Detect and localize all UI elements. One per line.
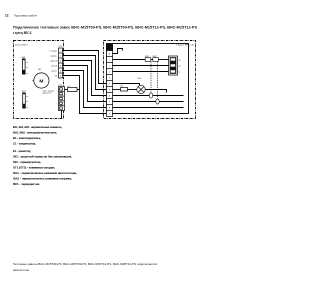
svg-text:Подготовка к работе: Подготовка к работе	[14, 13, 37, 17]
svg-text:ор: ор	[179, 65, 181, 67]
svg-text:SА1 - переключатель режимов ве: SА1 - переключатель режимов вентилятора,	[13, 171, 77, 175]
svg-text:С1 - конденсатор,: С1 - конденсатор,	[13, 141, 36, 145]
svg-text:М: М	[39, 78, 43, 84]
svg-text:аналогично.: аналогично.	[13, 268, 30, 272]
svg-text:к пульту BRC-S.: к пульту BRC-S.	[13, 31, 32, 35]
svg-text:ВК1 - термодатчик.: ВК1 - термодатчик.	[13, 182, 40, 186]
svg-text:ХТ1 (ХТ2) - клеммные колодки,: ХТ1 (ХТ2) - клеммные колодки,	[13, 165, 55, 169]
svg-text:красн.: красн.	[51, 70, 57, 72]
svg-text:М1 - электродвигатель,: М1 - электродвигатель,	[13, 136, 41, 140]
svg-text:SК2 - терморегулятор,: SК2 - терморегулятор,	[13, 160, 41, 164]
svg-text:КМ1, КМ2 - электромагнитные ре: КМ1, КМ2 - электромагнитные реле,	[13, 130, 57, 134]
svg-text:ЕК1, ЕК2, ЕК3 - нагревательные: ЕК1, ЕК2, ЕК3 - нагревательные элементы,	[13, 125, 62, 129]
svg-text:белый: белый	[51, 64, 58, 67]
svg-text:Подключение тепловых завес ВНС: Подключение тепловых завес ВНС-М15Т09-PS…	[13, 26, 197, 30]
svg-text:SА2 - переключатель режимов на: SА2 - переключатель режимов нагрева,	[13, 176, 72, 180]
svg-text:кр: кр	[179, 59, 181, 61]
svg-text:L-голуб.: L-голуб.	[50, 50, 58, 52]
svg-text:SК1 - защитный термостат без с: SК1 - защитный термостат без самовозврат…	[13, 154, 72, 158]
svg-text:Пульт BRC-S: Пульт BRC-S	[177, 45, 195, 47]
svg-text:коричн.: коричн.	[50, 55, 58, 57]
svg-text:черный: черный	[50, 59, 58, 62]
svg-text:Е1 - резистор,: Е1 - резистор,	[13, 149, 31, 153]
svg-text:двигателя: двигателя	[43, 93, 52, 95]
svg-text:Тепловые завесы ВНС-М15Т09-PS,: Тепловые завесы ВНС-М15Т09-PS, ВНС-М25Т0…	[13, 262, 157, 266]
svg-text:12: 12	[5, 13, 9, 17]
svg-text:ж/з: ж/з	[54, 75, 57, 77]
svg-text:Завеса ВНС-1: Завеса ВНС-1	[15, 45, 29, 47]
